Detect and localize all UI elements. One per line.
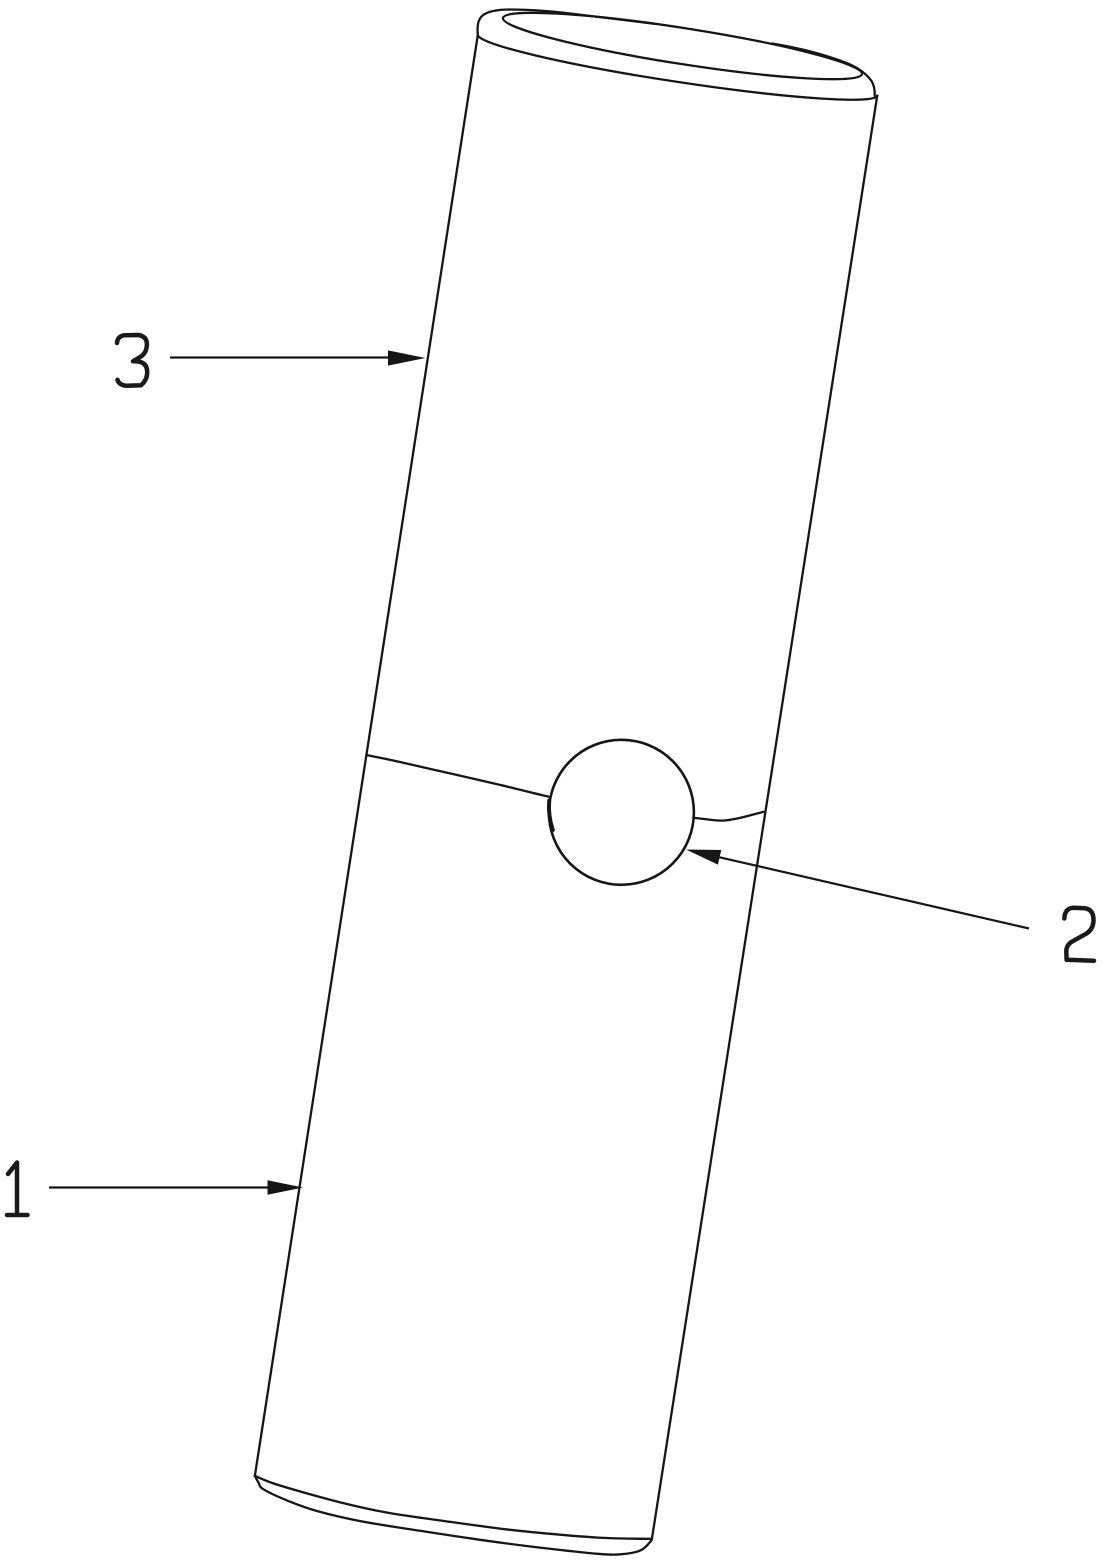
leader line for label 3 [170, 356, 392, 358]
cylinder right side edge [652, 95, 877, 1540]
label digit 2 [1064, 908, 1094, 961]
cap outer silhouette right corner [772, 44, 875, 96]
label digit 3 [117, 335, 147, 386]
cap top face ellipse [500, 0, 865, 92]
leader line for label 2 [720, 857, 1029, 928]
cylinder top rim lower arc [475, 35, 877, 112]
arrowhead for label 2 [686, 850, 721, 865]
cylinder bottom rim lower arc [255, 1476, 652, 1555]
button 2 : circle [549, 740, 694, 885]
arrowhead for label 3 [388, 350, 426, 365]
cylinder bottom rim upper arc [255, 1476, 652, 1539]
arrowhead for label 1 [268, 1180, 304, 1195]
seam trace on button left edge [549, 801, 553, 831]
cap outer silhouette left corner [478, 9, 655, 34]
label digit 1 [7, 1163, 28, 1216]
cylinder left side edge [255, 34, 478, 1476]
leader line for label 1 [49, 1186, 270, 1188]
seam between body 1 and body 3 [368, 755, 764, 820]
